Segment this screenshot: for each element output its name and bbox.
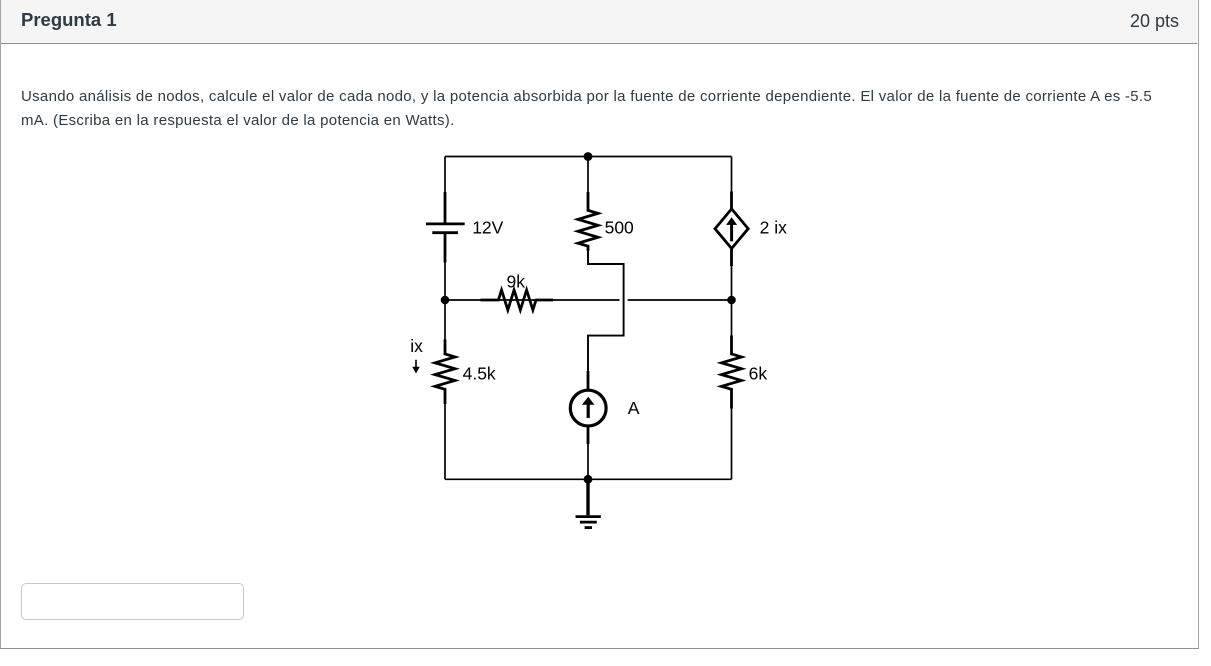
- svg-text:500: 500: [605, 218, 634, 238]
- svg-text:9k: 9k: [507, 272, 526, 292]
- svg-text:A: A: [628, 398, 640, 418]
- svg-text:2 ix: 2 ix: [760, 218, 787, 238]
- svg-text:ix: ix: [410, 336, 423, 356]
- svg-text:4.5k: 4.5k: [463, 364, 496, 384]
- svg-text:6k: 6k: [749, 364, 768, 384]
- svg-text:12V: 12V: [472, 218, 503, 238]
